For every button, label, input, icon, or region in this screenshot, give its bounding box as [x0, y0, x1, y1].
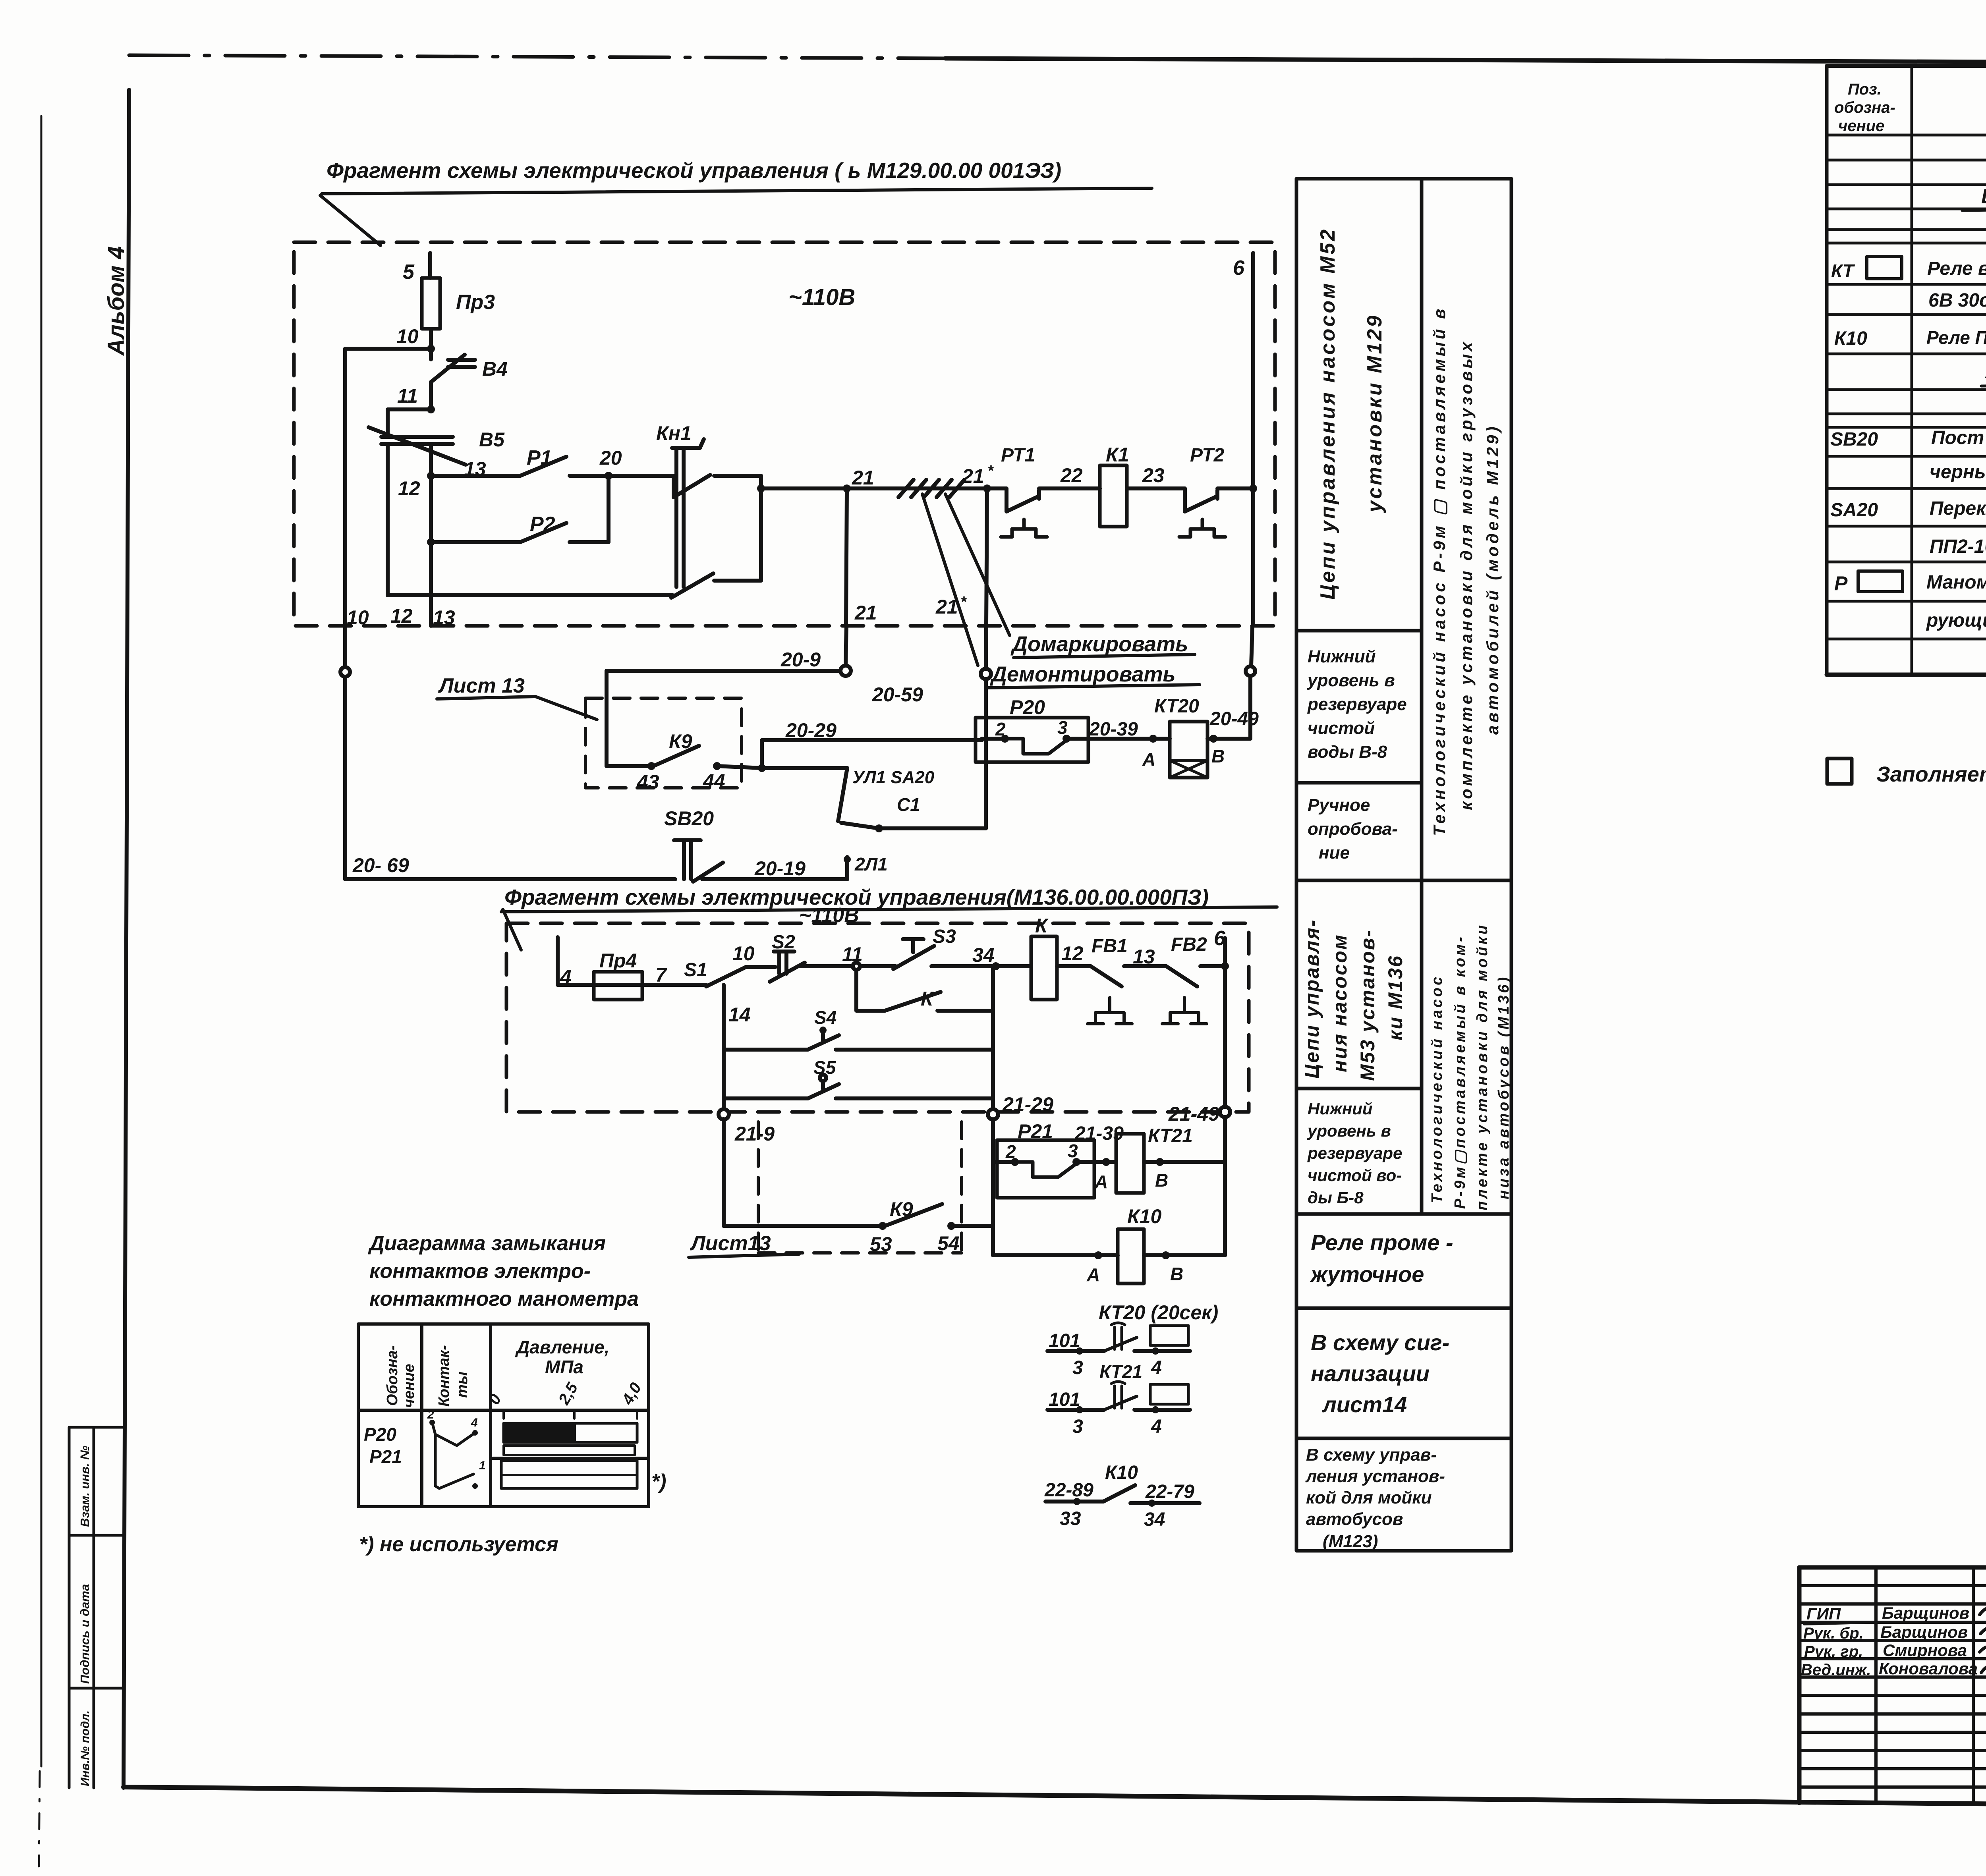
wire 20-9 — [607, 669, 840, 673]
contact P1 — [431, 474, 520, 478]
connector circle wire 10 — [340, 667, 350, 677]
svg-text:44: 44 — [703, 770, 725, 792]
svg-text:Р21: Р21 — [369, 1446, 402, 1467]
svg-text:В: В — [1155, 1170, 1168, 1191]
svg-text:Лист 13: Лист 13 — [438, 674, 525, 697]
svg-text:21-9: 21-9 — [734, 1123, 775, 1145]
svg-text:черный, (3+1р " Пуск ", ТУ16-: черный, (3+1р " Пуск ", ТУ16-642,006-83 — [1930, 461, 1986, 483]
svg-text:3: 3 — [1068, 1141, 1078, 1161]
wire 4 — [556, 937, 560, 985]
svg-text:3: 3 — [1072, 1416, 1083, 1437]
contact B4 — [429, 349, 433, 359]
svg-text:Коновалова: Коновалова — [1879, 1659, 1978, 1678]
svg-text:А: А — [1086, 1264, 1100, 1285]
svg-text:2: 2 — [995, 719, 1006, 739]
svg-text:Р2: Р2 — [530, 513, 555, 536]
svg-text:20-19: 20-19 — [754, 857, 806, 880]
svg-text:Реле проме -: Реле проме - — [1311, 1230, 1453, 1255]
svg-text:S1: S1 — [684, 959, 707, 980]
dashed box sheet13 — [585, 698, 742, 788]
svg-text:Технологический насос Р-9м ▢: Технологический насос Р-9м ▢ поставляемы… — [1430, 306, 1449, 836]
self hold contact K — [854, 970, 858, 1011]
svg-text:Пр4: Пр4 — [599, 950, 637, 972]
svg-text:~110В: ~110В — [788, 284, 855, 310]
svg-text:101: 101 — [1049, 1330, 1080, 1351]
svg-text:Заполняется при привязке проек: Заполняется при привязке проекта. — [1876, 762, 1986, 786]
main title block frame — [1799, 1567, 1986, 1805]
junction wire 20-29 — [758, 764, 766, 772]
svg-text:контактного манометра: контактного манометра — [369, 1287, 639, 1310]
svg-text:21: 21 — [962, 465, 984, 487]
svg-text:Переключатель пакетный: Переключатель пакетный — [1930, 498, 1986, 519]
svg-text:Рук. бр.: Рук. бр. — [1803, 1625, 1864, 1642]
svg-text:нализации: нализации — [1311, 1361, 1430, 1386]
connector 21-49 — [1220, 1107, 1230, 1117]
svg-text:20: 20 — [599, 447, 622, 469]
vertical node34 wire — [991, 966, 995, 1110]
wire node10 left — [345, 347, 431, 351]
svg-text:20- 69: 20- 69 — [352, 854, 409, 876]
svg-text:4: 4 — [471, 1416, 478, 1429]
contacts sketch lower — [435, 1434, 473, 1488]
svg-text:33: 33 — [1060, 1508, 1081, 1529]
frame top dash-dot line — [129, 55, 945, 58]
svg-text:А: А — [1094, 1172, 1108, 1192]
switch UL1 SA20 C1 — [762, 766, 847, 770]
svg-text:Нижний: Нижний — [1308, 647, 1376, 666]
svg-text:Р-9м▢поставляемый в ком-: Р-9м▢поставляемый в ком- — [1452, 934, 1468, 1209]
wire 12 down — [386, 444, 390, 595]
svg-text:воды В-8: воды В-8 — [1308, 742, 1387, 762]
svg-text:В4: В4 — [482, 358, 508, 380]
svg-text:Ручное: Ручное — [1308, 795, 1370, 815]
svg-text:21-29: 21-29 — [1002, 1093, 1053, 1116]
connector 21-29 — [988, 1109, 998, 1119]
svg-text:чение: чение — [401, 1364, 417, 1408]
svg-text:КТ20 (20сек): КТ20 (20сек) — [1099, 1301, 1218, 1324]
svg-text:чистой во-: чистой во- — [1308, 1166, 1402, 1185]
svg-text:(М123): (М123) — [1323, 1532, 1378, 1551]
svg-text:С1: С1 — [897, 794, 920, 815]
frame bottom border — [124, 1787, 1986, 1809]
sheet margin thin line — [41, 116, 43, 1766]
marking hatch on wire 21* — [898, 480, 914, 497]
parts table grid — [1827, 66, 1986, 675]
svg-text:Цепи управля-: Цепи управля- — [1301, 919, 1323, 1079]
svg-text:УЛ1 SА20: УЛ1 SА20 — [852, 768, 935, 787]
svg-text:22-79: 22-79 — [1145, 1481, 1194, 1502]
svg-text:6: 6 — [1233, 257, 1245, 280]
pressure bars upper — [504, 1423, 637, 1442]
svg-text:13: 13 — [1133, 946, 1155, 968]
svg-text:34: 34 — [1144, 1509, 1165, 1530]
svg-text:23: 23 — [1142, 464, 1165, 486]
svg-text:резервуаре: резервуаре — [1307, 1144, 1402, 1162]
connector circle rail 6 low — [1246, 666, 1255, 676]
svg-text:М53 установ-: М53 установ- — [1356, 929, 1379, 1081]
svg-text:Р20: Р20 — [364, 1424, 396, 1445]
svg-text:чение: чение — [1838, 117, 1884, 135]
dashed box M136 — [506, 923, 1249, 1112]
svg-text:В: В — [1211, 746, 1225, 766]
svg-text:12: 12 — [398, 477, 420, 500]
svg-text:резервуаре: резервуаре — [1307, 695, 1407, 714]
svg-text:К: К — [1035, 915, 1049, 937]
wire 20-59 vertical — [984, 679, 988, 828]
wire 20-69 — [345, 877, 675, 881]
dashed box M129 — [294, 242, 1275, 626]
wire 21 down — [846, 488, 847, 626]
svg-text:10: 10 — [347, 606, 369, 629]
svg-text:1: 1 — [479, 1459, 486, 1472]
svg-text:РТ2: РТ2 — [1190, 445, 1225, 466]
wire 5 — [428, 253, 432, 278]
svg-text:Домаркировать: Домаркировать — [1010, 632, 1188, 656]
svg-text:4: 4 — [1151, 1416, 1162, 1437]
svg-text:Р1: Р1 — [527, 446, 552, 469]
svg-text:Манометр показывающий, сигнали: Манометр показывающий, сигнализи- — [1926, 572, 1986, 593]
svg-text:КТ21: КТ21 — [1099, 1361, 1142, 1382]
svg-text:12: 12 — [390, 605, 413, 627]
svg-text:Пр3: Пр3 — [456, 291, 495, 314]
svg-text:5: 5 — [403, 261, 415, 284]
svg-text:Обозна-: Обозна- — [384, 1345, 401, 1406]
svg-text:20-39: 20-39 — [1089, 719, 1138, 740]
svg-text:Смирнова: Смирнова — [1883, 1641, 1967, 1660]
dashed box sheet13 M136 — [757, 1122, 760, 1253]
svg-text:S4: S4 — [814, 1007, 837, 1028]
svg-text:20-29: 20-29 — [785, 719, 837, 741]
svg-text:обозна-: обозна- — [1834, 99, 1895, 116]
svg-text:РТ1: РТ1 — [1001, 445, 1035, 466]
frame left border — [124, 90, 129, 1788]
svg-text:11: 11 — [397, 385, 418, 407]
svg-text:К10: К10 — [1105, 1462, 1138, 1483]
svg-text:Взам. инв. №: Взам. инв. № — [78, 1446, 92, 1527]
svg-text:автобусов: автобусов — [1306, 1509, 1403, 1529]
svg-text:S3: S3 — [933, 926, 956, 947]
svg-text:4: 4 — [1151, 1357, 1162, 1378]
svg-text:Технологический насос: Технологический насос — [1429, 975, 1445, 1203]
svg-text:7: 7 — [655, 964, 667, 986]
svg-text:FВ2: FВ2 — [1171, 934, 1207, 955]
svg-text:10: 10 — [396, 325, 419, 347]
svg-text:ления установ-: ления установ- — [1305, 1467, 1445, 1486]
svg-text:22: 22 — [1060, 464, 1083, 486]
svg-text:кой для мойки: кой для мойки — [1306, 1488, 1432, 1507]
svg-text:лист14: лист14 — [1321, 1392, 1407, 1417]
svg-text:2: 2 — [427, 1408, 434, 1421]
svg-text:Шкаф АS: Шкаф АS — [1981, 185, 1986, 208]
contacts sketch upper — [429, 1420, 435, 1425]
svg-text:Рук. гр.: Рук. гр. — [1804, 1643, 1863, 1660]
fuse Pr3 — [422, 278, 440, 329]
svg-text:Подпись и дата: Подпись и дата — [78, 1584, 92, 1684]
stub 2L1 — [845, 857, 849, 879]
connector circle node 20-9 — [840, 666, 851, 676]
rail 6 M129 — [1249, 484, 1257, 492]
svg-text:опробова-: опробова- — [1308, 819, 1398, 839]
svg-text:ПП2-16/Н2 У456Б, ТУ16- 642, 0: ПП2-16/Н2 У456Б, ТУ16- 642, 051- 86 , — [1930, 536, 1986, 557]
svg-text:ты: ты — [454, 1372, 471, 1398]
KN1 lower pole branch — [388, 593, 673, 597]
svg-text:3: 3 — [1057, 717, 1068, 738]
svg-text:Цепи управления насосом М52: Цепи управления насосом М52 — [1316, 228, 1339, 600]
svg-text:Р20: Р20 — [1010, 696, 1045, 718]
svg-text:Нижний: Нижний — [1308, 1099, 1373, 1118]
svg-text:К1: К1 — [1106, 444, 1129, 466]
svg-text:ды Б-8: ды Б-8 — [1308, 1188, 1364, 1207]
svg-text:SВ20: SВ20 — [664, 807, 714, 830]
svg-text:*): *) — [651, 1470, 667, 1493]
svg-text:Альбом 4: Альбом 4 — [103, 246, 129, 356]
svg-text:21: 21 — [852, 467, 874, 489]
checkbox note — [1827, 759, 1852, 784]
connector circle node 20-59 — [981, 669, 991, 679]
svg-text:6В 30сек , ТУ16 - 647. 036 - 8: 6В 30сек , ТУ16 - 647. 036 - 86 — [1928, 290, 1986, 311]
svg-text:14: 14 — [728, 1004, 751, 1026]
svg-text:*: * — [987, 463, 994, 479]
svg-text:уровень в: уровень в — [1307, 1121, 1391, 1140]
wire fuse to node 10 — [429, 329, 433, 349]
svg-text:13: 13 — [433, 606, 455, 629]
svg-text:20-59: 20-59 — [872, 683, 923, 706]
svg-text:Пост управления ПКЕ 222-1У3,: Пост управления ПКЕ 222-1У3, 1/4 — [1931, 427, 1986, 448]
svg-text:101: 101 — [1049, 1389, 1080, 1410]
svg-text:рующий ЭКМ-1У, Q: рующий ЭКМ-1У, Q — [1926, 610, 1986, 631]
svg-text:автомобилей (модель М129): автомобилей (модель М129) — [1483, 424, 1502, 735]
K9 row M136 — [722, 1119, 726, 1226]
pressure table frame — [358, 1324, 649, 1507]
svg-text:Поз.: Поз. — [1848, 81, 1882, 98]
svg-text:FВ1: FВ1 — [1092, 936, 1128, 957]
svg-text:К10: К10 — [1834, 328, 1867, 349]
svg-text:2Л1: 2Л1 — [854, 854, 888, 874]
leader to dashed box M136 — [503, 909, 521, 950]
svg-text:А: А — [1142, 749, 1155, 770]
svg-text:комплекте установки для мой: комплекте установки для мойки грузовых — [1457, 339, 1476, 810]
pressure bars lower — [501, 1461, 637, 1488]
svg-text:Р: Р — [1834, 572, 1848, 594]
wire stubs crossing dashed edge — [343, 626, 347, 667]
svg-text:контактов электро-: контактов электро- — [369, 1260, 591, 1283]
svg-text:жуточное: жуточное — [1310, 1262, 1424, 1287]
wire 10 down — [343, 349, 347, 626]
contact P2 — [427, 538, 435, 546]
svg-text:КТ: КТ — [1831, 261, 1855, 281]
svg-text:3: 3 — [1072, 1357, 1083, 1378]
svg-text:22-89: 22-89 — [1044, 1480, 1093, 1501]
svg-text:К10: К10 — [1127, 1205, 1162, 1228]
svg-text:Барщинов: Барщинов — [1880, 1623, 1968, 1641]
demount labels with leaders — [945, 494, 1010, 635]
svg-text:В: В — [1170, 1264, 1183, 1284]
wire 13 down — [429, 444, 433, 626]
svg-text:МПа: МПа — [545, 1357, 583, 1377]
svg-text:уровень в: уровень в — [1307, 671, 1395, 690]
svg-text:плекте установки для мойки: плекте установки для мойки — [1474, 923, 1491, 1210]
svg-text:В схему сиг-: В схему сиг- — [1311, 1330, 1449, 1355]
connector 21-9 — [719, 1109, 729, 1119]
svg-text:21: 21 — [935, 596, 958, 618]
svg-text:2: 2 — [1005, 1141, 1016, 1162]
wire node 21 — [761, 486, 898, 490]
leader to dashed box M129 — [320, 195, 381, 245]
svg-text:ки М136: ки М136 — [1384, 955, 1406, 1040]
svg-text:SВ20: SВ20 — [1830, 429, 1878, 450]
svg-text:34: 34 — [972, 944, 995, 966]
svg-text:12: 12 — [1061, 942, 1084, 965]
wire 21* down — [986, 488, 987, 626]
svg-text:21: 21 — [854, 602, 877, 624]
svg-text:КТ21: КТ21 — [1148, 1125, 1193, 1146]
svg-text:Демонтировать: Демонтировать — [990, 662, 1176, 686]
svg-text:ние: ние — [1319, 843, 1350, 863]
svg-text:Вед.инж.: Вед.инж. — [1801, 1661, 1871, 1679]
legend column boxes — [1296, 179, 1511, 1551]
svg-text:КТ20: КТ20 — [1154, 696, 1199, 717]
svg-text:Инв.№ подл.: Инв.№ подл. — [79, 1710, 92, 1786]
svg-text:Кн1: Кн1 — [656, 422, 692, 444]
svg-text:чистой: чистой — [1308, 718, 1375, 738]
svg-text:SА20: SА20 — [1830, 500, 1878, 521]
svg-text:Давление,: Давление, — [515, 1337, 609, 1357]
wire 21-29 down — [991, 1119, 995, 1255]
svg-text:Фрагмент схемы электрической: Фрагмент схемы электрической управления … — [326, 158, 1061, 183]
svg-text:*: * — [960, 594, 967, 610]
svg-text:ГИП: ГИП — [1806, 1604, 1841, 1623]
svg-text:установки М129: установки М129 — [1363, 314, 1386, 513]
svg-text:54: 54 — [937, 1232, 960, 1255]
svg-text:10: 10 — [732, 942, 755, 965]
branch wire 14 ladder — [722, 985, 726, 1110]
svg-text:Контак-: Контак- — [436, 1345, 452, 1407]
svg-text:20-9: 20-9 — [780, 648, 821, 671]
svg-text:ния насосом: ния насосом — [1329, 934, 1351, 1072]
main line to fuse — [558, 983, 594, 987]
svg-text:21-49: 21-49 — [1168, 1103, 1219, 1125]
contact B5 — [369, 427, 466, 465]
svg-text:низа автобусов (М136): низа автобусов (М136) — [1495, 975, 1512, 1199]
svg-text:В5: В5 — [479, 428, 505, 451]
svg-text:*) не используется: *) не используется — [359, 1533, 558, 1556]
bottom-left margin stamp column — [68, 1427, 71, 1788]
svg-text:Диаграмма замыкания: Диаграмма замыкания — [368, 1232, 606, 1255]
signatures squiggles — [1980, 1608, 1986, 1615]
svg-text:Барщинов: Барщинов — [1882, 1604, 1969, 1622]
svg-text:43: 43 — [637, 771, 659, 793]
svg-text:Реле времени РКВ 11-33-112-УХЛ: Реле времени РКВ 11-33-112-УХЛ4 ,-110В — [1927, 258, 1986, 279]
svg-text:В схему управ-: В схему управ- — [1306, 1445, 1437, 1465]
svg-text:Реле ПЭ-37-2243,~110В,ТУ16-523: Реле ПЭ-37-2243,~110В,ТУ16-523,622- 82 — [1926, 327, 1986, 348]
